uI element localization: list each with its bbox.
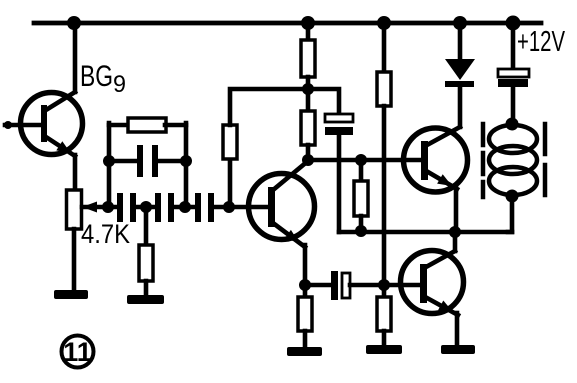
ground G3 [287, 347, 322, 356]
wire W2 [339, 230, 512, 235]
node rail junction at Q1 collector [67, 16, 81, 30]
capacitor C5 [325, 114, 353, 135]
capacitor C4 [137, 145, 158, 177]
transistor Q1 BG9 [21, 92, 83, 156]
node rail junction at C7 [506, 16, 521, 31]
wire node B to R2 [144, 207, 149, 245]
label BG9 [80, 60, 126, 98]
node B [140, 201, 152, 213]
wire R5 to R6 [306, 77, 311, 111]
wire Q1 base input [4, 121, 42, 129]
wire C2 to C3 [174, 205, 195, 210]
wire rail to C7 [511, 23, 516, 68]
node W2 at Q4 collector [449, 226, 461, 238]
wire loop top left segment [109, 123, 130, 128]
capacitor C6 [331, 271, 350, 300]
node L1 top [506, 118, 519, 131]
capacitor C3 [195, 193, 214, 222]
capacitor C7 [498, 69, 529, 87]
resistor R7 [354, 181, 368, 216]
svg-text:9: 9 [113, 71, 126, 98]
resistor R3 [128, 118, 166, 132]
wire Q4 emitter to ground [455, 313, 460, 346]
inductor L1 [489, 125, 537, 195]
wire R6 to W1 node [306, 145, 311, 161]
wire C5 bottom to W2 [337, 135, 342, 232]
node A [102, 201, 114, 213]
node D [223, 201, 235, 213]
wire Q2 emitter to C6 [305, 283, 331, 288]
wire L1 bottom to W2 [508, 196, 512, 232]
svg-text:11: 11 [63, 337, 92, 367]
node between R5 and R6 [302, 83, 314, 95]
resistor R4 [223, 125, 237, 159]
ground G2 [127, 295, 164, 304]
wire branch to C5 [308, 89, 339, 114]
node rail junction at R8 [377, 16, 391, 30]
shield dashed left [481, 124, 486, 197]
diode D1 [445, 23, 475, 127]
wire R10 to ground [303, 331, 308, 348]
resistor R8 [377, 72, 391, 106]
ground G5 [441, 345, 475, 354]
node rail junction at D1 [453, 16, 467, 30]
wire R9 to ground [382, 331, 387, 346]
node rail junction at R5 [301, 16, 315, 30]
node Q2 emitter [299, 279, 311, 291]
node Q4 base [378, 279, 390, 291]
resistor R9 [377, 297, 391, 331]
shield dashed right [543, 124, 548, 197]
resistor R6 [301, 111, 315, 145]
wire Q3 emitter to W2 [454, 187, 459, 232]
transistor Q4 [401, 251, 464, 316]
node loop right cap junction [180, 155, 192, 167]
wire node D up to R4 [228, 159, 233, 207]
node W1 left (Q2 collector) [302, 154, 314, 166]
wire R7 to W2 [359, 216, 364, 232]
potentiometer R1 4.7K [67, 190, 98, 229]
capacitor C1 [117, 193, 136, 222]
node loop left cap junction [103, 155, 115, 167]
wire C1 to C2 [136, 205, 155, 210]
node C [179, 201, 191, 213]
wire R1 wiper to node A [82, 205, 117, 210]
wire C7 to L1 [511, 87, 516, 124]
capacitor C2 [155, 193, 174, 222]
wire Q1 collector to rail [73, 23, 78, 92]
node W1 at R7 [355, 154, 367, 166]
wire W1 node to R7 [359, 160, 364, 181]
wire R4 top to node R5/R6 [230, 89, 308, 125]
resistor R5 [301, 40, 315, 77]
wire W1 to Q3 base [308, 158, 421, 163]
wire R2 to ground [144, 281, 149, 296]
resistor R2 [139, 245, 153, 281]
svg-text:4.7K: 4.7K [81, 219, 130, 249]
wire Q2 emitter down [303, 245, 308, 297]
wire R8 down to Q4 base node [382, 106, 387, 297]
resistor R10 [298, 297, 312, 331]
transistor Q2 [249, 161, 315, 247]
wire +12V power rail [34, 21, 541, 26]
transistor Q3 [404, 127, 468, 192]
ground G4 [366, 345, 402, 354]
figure number 11 [62, 336, 94, 368]
wire C6 to Q4 base [350, 283, 420, 288]
wire R1 to ground [72, 229, 77, 291]
wire rail to R5 [306, 23, 311, 40]
wire loop top right segment [165, 123, 186, 128]
wire Q4 collector to W2 [453, 232, 458, 251]
svg-text:BG: BG [80, 60, 113, 93]
wire loop left leg from node A [107, 123, 112, 207]
node L1 bottom [506, 190, 519, 203]
wire C3 to Q2 base [214, 205, 270, 210]
ground G1 [54, 290, 88, 299]
wire loop right leg to node C [184, 123, 189, 207]
wire cap branch right [158, 159, 186, 164]
node W2 at R7 [355, 225, 367, 237]
wire rail to R8 [382, 23, 387, 72]
wire Q1 emitter to R1 [73, 155, 78, 191]
svg-text:+12V: +12V [517, 26, 565, 58]
wire cap branch left [109, 159, 137, 164]
